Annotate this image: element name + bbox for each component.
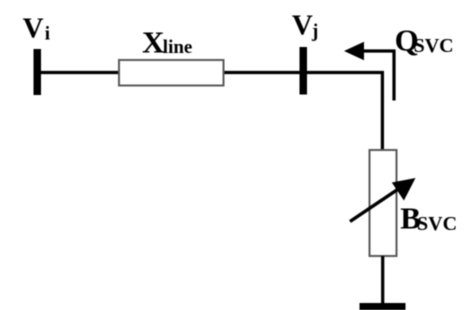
- reactance X_line box: [119, 60, 224, 86]
- svg-text:i: i: [45, 24, 50, 45]
- svg-text:X: X: [142, 25, 165, 60]
- ground: [360, 303, 406, 310]
- wire bus V_j to corner and down to B_SVC: [300, 73, 382, 151]
- wire V_i to X_line: [41, 71, 119, 74]
- wire B_SVC to ground: [381, 256, 384, 304]
- svg-text:SVC: SVC: [414, 35, 454, 57]
- svg-text:line: line: [163, 37, 193, 58]
- arrow Q_SVC: [344, 42, 394, 101]
- bus V_i: [34, 49, 42, 95]
- svg-text:V: V: [23, 13, 44, 45]
- svg-text:V: V: [292, 10, 313, 42]
- bus V_j: [300, 47, 308, 95]
- svg-text:j: j: [311, 21, 318, 42]
- svg-text:SVC: SVC: [417, 213, 457, 235]
- susceptance B_SVC box: [370, 150, 397, 256]
- variable-susceptance arrow through B_SVC: [350, 178, 416, 222]
- wire X_line to bus V_j: [225, 71, 301, 74]
